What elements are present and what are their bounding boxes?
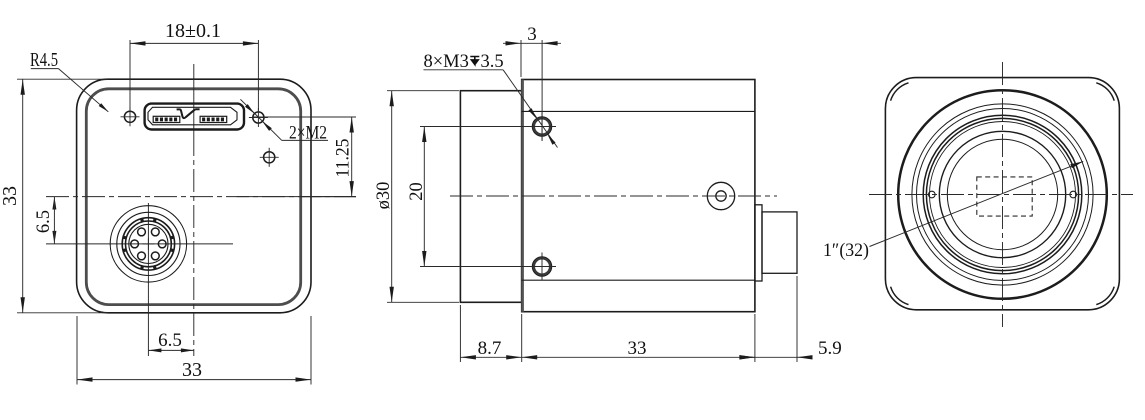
svg-text:1″(32): 1″(32) <box>823 240 869 261</box>
svg-text:ø30: ø30 <box>374 182 394 210</box>
svg-text:3.5: 3.5 <box>481 52 504 72</box>
svg-text:8.7: 8.7 <box>478 338 502 359</box>
svg-text:18±0.1: 18±0.1 <box>165 20 221 42</box>
svg-text:3: 3 <box>527 24 537 45</box>
svg-text:33: 33 <box>628 338 647 359</box>
svg-text:33: 33 <box>0 186 21 206</box>
svg-text:R4.5: R4.5 <box>30 49 58 71</box>
svg-text:5.9: 5.9 <box>818 338 842 359</box>
svg-text:6.5: 6.5 <box>158 330 182 351</box>
svg-text:8×M3: 8×M3 <box>424 52 469 72</box>
svg-text:11.25: 11.25 <box>334 139 354 178</box>
svg-text:33: 33 <box>182 359 202 381</box>
svg-text:6.5: 6.5 <box>34 210 54 233</box>
